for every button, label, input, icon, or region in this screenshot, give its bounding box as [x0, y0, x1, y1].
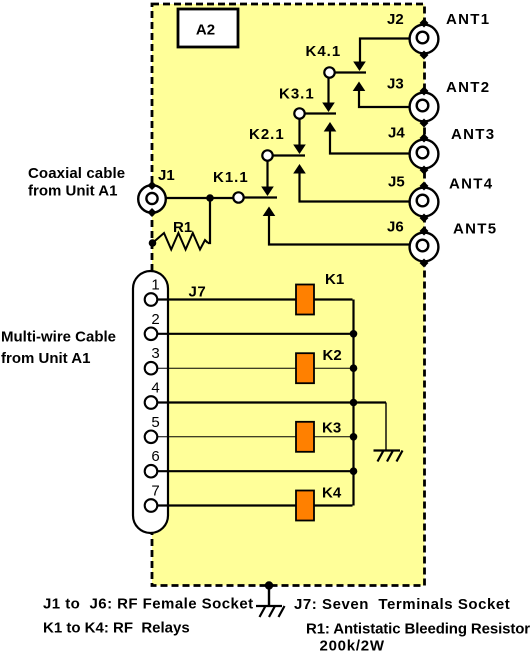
wire K3.1 pole to K2.1 throw (down arrow) — [293, 119, 306, 155]
wire terminal 5 to K3 coil — [157, 436, 296, 438]
wire K4.1 throw to J3 (up arrow) — [353, 82, 417, 108]
wire boundary to ground — [268, 586, 270, 607]
svg-text:7: 7 — [151, 483, 159, 500]
svg-text:J7: Seven Terminals Socket: J7: Seven Terminals Socket — [294, 596, 510, 613]
svg-text:J2: J2 — [387, 11, 404, 28]
wire K2.1 contact bar — [273, 154, 305, 156]
svg-text:K1.1: K1.1 — [213, 169, 249, 186]
svg-text:K3: K3 — [322, 420, 341, 437]
wire J1 to K1.1 — [152, 197, 234, 199]
relay contact K2.1 pole circle — [262, 150, 272, 160]
connector J3 (RF female socket) — [410, 87, 439, 128]
wire K4 coil to bus — [314, 504, 353, 506]
wire down to chassis ground — [385, 403, 387, 451]
svg-text:ANT3: ANT3 — [451, 126, 495, 143]
svg-text:J1 to J6: RF Female Socket: J1 to J6: RF Female Socket — [43, 595, 254, 612]
wire K3 coil to bus — [314, 436, 354, 438]
J7 terminal 5 — [145, 431, 158, 444]
wire K1.1 throw to J6 (up arrow) — [263, 207, 417, 245]
wire K4.1 pole to K3.1 throw (down arrow) — [322, 78, 335, 113]
J7 terminal 6 — [145, 465, 158, 478]
J7 terminal 3 — [145, 362, 158, 375]
J7 terminal 2 — [145, 328, 158, 341]
connector J6 (RF female socket) — [410, 227, 439, 268]
node R1 to J1 shield on boundary — [149, 239, 157, 247]
svg-text:Multi-wire Cable: Multi-wire Cable — [1, 329, 116, 346]
wire R1 tap down to resistor — [208, 198, 210, 243]
relay coil K3 — [296, 422, 314, 452]
wire terminal 4 to bus and chassis ground — [157, 401, 386, 403]
socket J7 body (seven terminals socket) — [133, 271, 168, 533]
unit A2 dashed boundary box — [152, 4, 425, 586]
wire terminal 2 to bus — [157, 333, 354, 335]
svg-text:K2: K2 — [323, 347, 342, 364]
label A2 box — [178, 9, 238, 47]
svg-text:K2.1: K2.1 — [249, 126, 285, 143]
svg-text:R1: Antistatic Bleeding Resist: R1: Antistatic Bleeding Resistor — [306, 621, 530, 638]
svg-text:ANT5: ANT5 — [453, 221, 497, 238]
wire terminal 6 to bus — [157, 470, 354, 472]
resistor R1 — [153, 233, 209, 250]
chassis ground symbol — [374, 451, 403, 462]
svg-text:6: 6 — [151, 448, 159, 465]
ground symbol bottom — [256, 606, 285, 617]
wire terminal 7 to K4 coil — [157, 504, 296, 506]
wire K3.1 throw to J4 (up arrow) — [324, 122, 417, 154]
svg-text:J7: J7 — [189, 284, 207, 301]
caption coaxial cable from unit A1 — [28, 165, 125, 200]
J7 terminal 1 — [145, 293, 158, 306]
svg-text:K4: K4 — [322, 485, 342, 502]
svg-text:J3: J3 — [387, 76, 404, 93]
wire K2.1 throw to J5 (up arrow) — [293, 164, 417, 202]
svg-text:R1: R1 — [173, 219, 192, 236]
wire K3.1 contact bar — [305, 112, 336, 114]
caption multi-wire cable from unit A1 — [1, 329, 116, 368]
bus wire (relay coil common) — [352, 300, 354, 506]
relay contact K3.1 pole circle — [294, 108, 304, 118]
wire terminal 1 to K1 coil — [157, 298, 296, 300]
connector J1 (RF female socket) — [138, 181, 166, 217]
node bottom boundary ground junction — [265, 581, 273, 589]
wire K1 coil to bus — [314, 298, 353, 300]
svg-text:J6: J6 — [387, 219, 404, 236]
wire K2.1 pole to K1.1 throw (down arrow) — [261, 161, 274, 197]
svg-text:ANT2: ANT2 — [446, 79, 490, 96]
relay coil K2 — [296, 353, 314, 383]
connector J2 (RF female socket) — [410, 19, 439, 60]
connector J4 (RF female socket) — [410, 134, 439, 175]
svg-text:J5: J5 — [388, 174, 405, 191]
node bus wire6 junction — [350, 467, 358, 475]
svg-text:K1: K1 — [325, 271, 344, 288]
svg-text:Coaxial cable: Coaxial cable — [28, 165, 125, 182]
relay contact K4.1 pole circle — [324, 67, 334, 77]
wire J2 to K4.1 throw (down arrow) — [353, 39, 417, 72]
svg-text:from Unit A1: from Unit A1 — [28, 183, 117, 200]
J7 terminal 4 — [145, 396, 158, 409]
wire K4.1 contact bar — [335, 71, 366, 73]
node bus wire4 junction — [350, 399, 358, 407]
node bus wire5 junction — [350, 433, 358, 441]
J7 terminal 7 — [145, 499, 158, 512]
svg-text:K1 to K4: RF Relays: K1 to K4: RF Relays — [43, 620, 190, 637]
svg-text:J4: J4 — [388, 125, 405, 142]
relay coil K1 — [296, 285, 314, 315]
node R1 tap junction — [206, 194, 214, 202]
svg-text:A2: A2 — [196, 22, 215, 39]
svg-text:K3.1: K3.1 — [279, 86, 315, 103]
node bus wire3 junction — [350, 364, 358, 372]
svg-text:K4.1: K4.1 — [306, 43, 342, 60]
wire K2 coil to bus — [314, 367, 354, 369]
node bus wire2 junction — [350, 330, 358, 338]
svg-text:2: 2 — [151, 311, 159, 328]
svg-text:from Unit A1: from Unit A1 — [1, 350, 90, 367]
svg-text:ANT4: ANT4 — [449, 176, 493, 193]
svg-text:ANT1: ANT1 — [446, 11, 490, 28]
relay coil K4 — [296, 491, 314, 521]
wire K1.1 contact bar — [244, 196, 277, 198]
svg-text:200k/2W: 200k/2W — [320, 637, 385, 654]
svg-text:4: 4 — [151, 380, 159, 397]
connector J5 (RF female socket) — [410, 182, 439, 223]
svg-text:3: 3 — [151, 345, 159, 362]
svg-text:J1: J1 — [158, 167, 175, 184]
relay contact K1.1 pole circle — [233, 192, 243, 202]
svg-text:1: 1 — [151, 277, 159, 294]
wire terminal 3 to K2 coil — [157, 367, 296, 369]
svg-text:5: 5 — [151, 414, 159, 431]
